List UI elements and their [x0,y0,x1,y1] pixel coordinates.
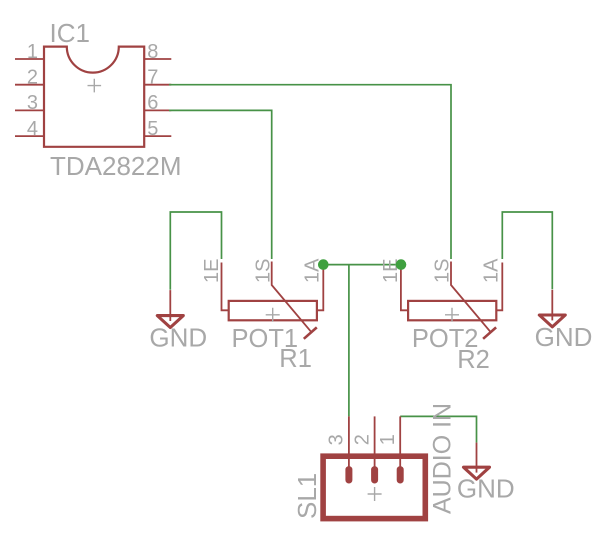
svg-text:5: 5 [147,118,158,140]
POT1 origin cross [266,308,280,322]
svg-text:1E: 1E [201,259,223,283]
svg-text:7: 7 [147,67,158,89]
SL1 pin 2 lead [374,416,376,469]
svg-text:GND: GND [457,473,515,503]
junction at POT2 1E [396,259,407,270]
wire IC1 pin7 to POT2 1S [169,85,451,259]
ground symbol GND3 [464,443,490,480]
IC U1 body (TDA2822M) [44,47,144,147]
svg-text:SL1: SL1 [292,473,322,519]
svg-text:3: 3 [326,434,348,445]
svg-text:8: 8 [147,41,158,63]
wire POT2 1A to GND2 [502,212,552,289]
SL1 origin cross [368,487,382,501]
svg-text:2: 2 [351,434,373,445]
IC1 pin 8 [144,58,171,60]
connector SL1 body [323,456,425,518]
wire IC1 pin6 to POT1 1S [169,110,272,259]
svg-text:1A: 1A [480,258,502,283]
svg-text:1: 1 [27,41,38,63]
IC1 pin 1 [15,58,44,60]
ground symbol GND1 [157,290,183,327]
SL1 pin 2 contact [371,470,378,480]
SL1 pin 1 lead [399,416,401,469]
wire bus to SL1 pin3 [348,265,350,417]
wire POT1 1A to POT2 1E [323,264,401,266]
junction at POT1 1A [318,259,329,270]
IC1 pin 4 [15,135,44,137]
POT2 origin cross [445,308,459,322]
svg-text:1: 1 [377,434,399,445]
wire SL1 pin1 to GND3 [400,416,476,442]
svg-text:AUDIO IN: AUDIO IN [428,403,456,514]
IC1 pin 2 [15,84,44,86]
SL1 pin 3 contact [345,470,352,480]
svg-text:GND: GND [535,322,593,352]
svg-text:1S: 1S [432,259,454,283]
svg-text:2: 2 [27,67,38,89]
ground symbol GND2 [539,290,565,327]
svg-text:IC1: IC1 [50,18,90,48]
IC1 pin 5 [144,135,171,137]
IC1 origin cross [88,79,102,93]
IC1 pin 6 [144,109,171,111]
svg-text:R1: R1 [279,345,312,373]
svg-text:TDA2822M: TDA2822M [50,151,182,181]
IC1 pin 7 [144,84,171,86]
SL1 pin 1 contact [397,470,404,480]
svg-text:GND: GND [149,323,207,353]
svg-text:4: 4 [27,118,38,140]
svg-text:6: 6 [147,92,158,114]
svg-text:1S: 1S [252,259,274,283]
potentiometer POT2 R2 [401,262,502,339]
wire GND1 to POT1 1E [170,212,221,290]
IC1 pin 3 [15,109,44,111]
SL1 pin 3 lead [348,416,350,469]
svg-text:R2: R2 [457,346,490,374]
potentiometer POT1 R1 [222,262,324,339]
svg-text:3: 3 [27,92,38,114]
